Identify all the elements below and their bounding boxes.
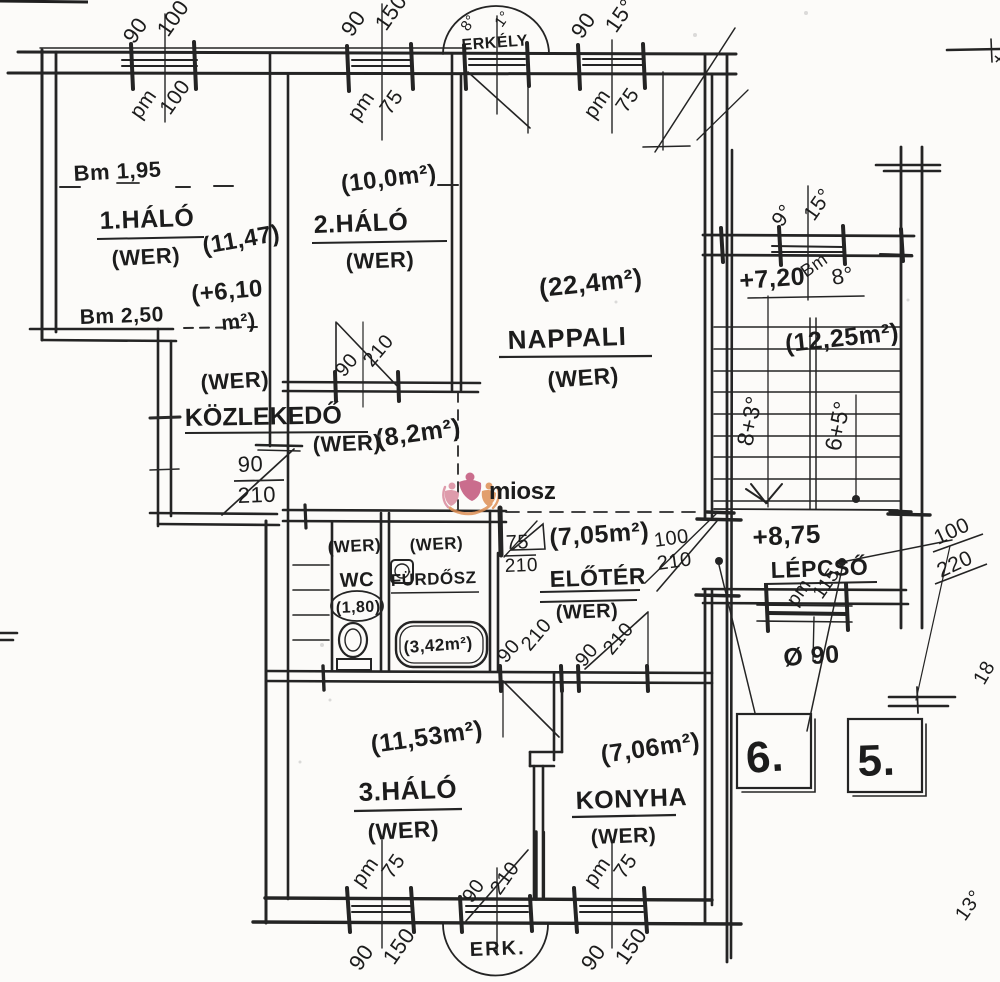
wall segment right of balcony door bottom: [534, 832, 537, 899]
balcony door top swing line: [468, 72, 530, 128]
wire left wall of KOZLEKEDO: [157, 329, 160, 526]
balcony door bottom swing line: [466, 850, 528, 921]
wire ELOTER bottom wall: [266, 671, 712, 673]
door ELOTER to KONYHA leaf: [585, 612, 648, 669]
stair window glazing: [772, 246, 843, 247]
WC area oval around 1,80: [331, 591, 383, 621]
wire right section top stub wall: [876, 164, 940, 167]
wire right wall of NAPPALI and KONYHA: [704, 54, 707, 518]
wire divider wall 3.HALO / KONYHA upper part: [553, 673, 556, 760]
svg-text:(1,80): (1,80): [336, 598, 381, 617]
svg-text:(WER): (WER): [200, 366, 270, 395]
wire bottom exterior wall upper line: [265, 898, 712, 900]
balcony arc bottom ERK: [443, 924, 548, 975]
entrance door leaf: [657, 521, 717, 591]
svg-text:+8,75: +8,75: [752, 518, 822, 552]
svg-text:FÜRDŐSZ: FÜRDŐSZ: [390, 568, 476, 590]
right landing door leaf: [842, 540, 952, 562]
leader line to box 6: [719, 565, 755, 713]
stair right dimension line with dot: [855, 395, 857, 498]
window W2 room 2.HALO jambs: [347, 46, 349, 91]
wire stair block left wall outer lines: [726, 54, 729, 962]
svg-text:(WER): (WER): [590, 824, 656, 849]
tick WC wall end on bottom wall: [323, 666, 324, 690]
svg-text:(WER): (WER): [345, 247, 414, 274]
toilet tank: [337, 659, 371, 670]
window W5 KONYHA jambs: [574, 888, 577, 932]
landing bottom door sill: [757, 605, 852, 606]
node corner tick: [643, 146, 690, 147]
window W4 room 3.HALO jambs: [347, 888, 350, 932]
tick on WC block top wall: [305, 505, 306, 528]
stair window dimension line: [807, 186, 809, 300]
svg-text:(WER): (WER): [367, 815, 440, 845]
svg-text:6.: 6.: [744, 731, 785, 783]
window W4 dimension line: [381, 840, 383, 948]
balcony door top glazing lines: [469, 58, 525, 60]
stair bottom landing line: [714, 509, 898, 510]
scan smudge top left corner: [0, 1, 88, 2]
door ELOTER to 3.HALO leaf: [503, 681, 559, 737]
wire divider jog notch: [530, 751, 562, 754]
svg-text:+7,20: +7,20: [738, 262, 806, 295]
balcony door bottom glazing lines: [466, 905, 528, 907]
wire landing bottom wall: [703, 589, 906, 590]
window W2 glazing lines: [352, 59, 410, 61]
balcony arc top ERKELY: [443, 6, 549, 54]
landing bold ticks at stair bottom: [707, 512, 734, 513]
stair top wall bold ticks: [721, 228, 723, 262]
svg-text:NAPPALI: NAPPALI: [507, 321, 627, 355]
wire small line at left page edge: [0, 632, 17, 635]
svg-text:210: 210: [237, 482, 276, 508]
stair underline of +7,20: [748, 296, 864, 298]
window W5 dimension line: [611, 840, 613, 948]
toilet bowl: [339, 623, 367, 657]
wire step wall Bm 2,50: [30, 328, 173, 331]
door bathroom triangle symbol: [512, 524, 545, 550]
box number 6: [737, 714, 811, 788]
svg-text:(WER): (WER): [312, 430, 381, 457]
svg-text:(WER): (WER): [409, 533, 463, 555]
leader line to box 5: [807, 564, 843, 731]
right landing door dot: [838, 558, 846, 566]
svg-text:8°: 8°: [830, 261, 856, 289]
svg-text:(WER): (WER): [555, 600, 618, 624]
wire long interior wall upper segment: [269, 54, 272, 446]
wire top exterior wall lower line: [8, 73, 736, 74]
svg-text:Bm 1,95: Bm 1,95: [73, 156, 162, 186]
wire bottom exterior wall lower line: [253, 922, 741, 924]
svg-text:2.HÁLÓ: 2.HÁLÓ: [313, 206, 409, 239]
shaft hatch lines left of WC: [293, 564, 329, 566]
wire divider wall lower part: [533, 766, 536, 899]
wire dashed Bm 1,95 line: [60, 186, 80, 188]
wire bathroom right wall: [489, 511, 492, 671]
door ELOTER to 3.HALO jambs: [500, 666, 501, 691]
door corridor leaf diagonal: [222, 449, 294, 515]
svg-text:90: 90: [237, 451, 263, 477]
door bathroom bold jamb: [500, 508, 501, 555]
wire WC block top wall: [283, 510, 506, 511]
svg-text:Ø 90: Ø 90: [782, 640, 840, 672]
svg-text:210: 210: [504, 555, 538, 577]
noise specks: [320, 643, 324, 647]
svg-text:3.HÁLÓ: 3.HÁLÓ: [358, 774, 457, 807]
wire dashed ceiling line in corridor: [184, 327, 258, 328]
wire long interior wall segment beside WC block: [287, 447, 290, 521]
window W2 dimension line: [381, 4, 383, 140]
wire left exterior wall of room 1.HALO: [41, 50, 44, 340]
entrance door jamb ticks: [697, 519, 741, 520]
window W5 glazing lines: [580, 905, 643, 907]
wire short wall stub right of landing: [889, 696, 955, 699]
svg-text:ERK.: ERK.: [469, 937, 526, 961]
wire WC left wall: [331, 522, 334, 671]
svg-text:miosz: miosz: [489, 478, 556, 505]
wire dashed boundary corridor/NAPPALI: [457, 392, 459, 509]
window W1 room 1.HALO jambs: [131, 44, 133, 89]
window W4 glazing lines: [352, 905, 410, 907]
svg-text:m²): m²): [220, 309, 256, 335]
window W3 NAPPALI jambs: [578, 45, 580, 89]
wire small line at top right page edge: [947, 49, 1000, 50]
svg-text:(WER): (WER): [547, 362, 620, 393]
svg-text:5.: 5.: [857, 736, 896, 786]
svg-text:75: 75: [505, 531, 529, 554]
stair window jambs: [779, 227, 781, 265]
stair down arrow: [751, 484, 782, 503]
wire bottom wall of 2.HALO: [283, 382, 480, 383]
logo miosz mark: [443, 473, 498, 514]
wire long interior wall lower segment (3.HALO left): [265, 521, 268, 923]
svg-text:ELŐTÉR: ELŐTÉR: [549, 562, 646, 592]
window W3 dimension line: [611, 40, 613, 133]
svg-text:Bm 2,50: Bm 2,50: [79, 303, 164, 329]
box number 5: [848, 719, 922, 792]
window W3 glazing lines: [583, 58, 642, 60]
stair center stringer: [809, 318, 811, 509]
wire dashed boundary NAPPALI/ELOTER: [506, 511, 700, 513]
node corner dimension vertical: [662, 72, 664, 150]
svg-text:(WER): (WER): [111, 242, 181, 271]
svg-text:WC: WC: [339, 569, 374, 592]
balcony door top jambs: [464, 45, 466, 89]
door corridor head tick: [256, 445, 302, 446]
door ELOTER to KONYHA jambs: [578, 666, 579, 691]
svg-text:1.HÁLÓ: 1.HÁLÓ: [99, 202, 195, 235]
door 2.HALO jambs: [335, 372, 336, 401]
window W1 glazing lines: [122, 59, 197, 61]
wire top exterior wall upper line: [18, 52, 736, 54]
wire wall between 2.HALO and NAPPALI: [451, 54, 454, 390]
wire wall between WC and bathroom: [380, 513, 383, 671]
stair treads: [714, 326, 900, 328]
entrance door opening dot: [715, 557, 723, 565]
stair left dimension line: [767, 296, 769, 507]
balcony door bottom jambs: [460, 897, 462, 932]
wire stair block right wall: [900, 147, 903, 628]
bathtub: [396, 622, 487, 667]
svg-text:(WER): (WER): [327, 535, 381, 557]
washbasin: [391, 560, 413, 583]
wire corridor bottom wall: [150, 513, 277, 514]
wire stair block top wall: [703, 235, 914, 236]
landing bottom door jambs: [766, 585, 768, 631]
door 2.HALO leaf: [335, 322, 337, 388]
node corner long diagonal: [655, 28, 735, 152]
window W1 dimension line: [164, 14, 166, 122]
svg-text:KÖZLEKEDŐ: KÖZLEKEDŐ: [185, 400, 342, 432]
wire ticks on corridor left wall: [150, 417, 180, 418]
svg-text:KONYHA: KONYHA: [575, 783, 687, 815]
